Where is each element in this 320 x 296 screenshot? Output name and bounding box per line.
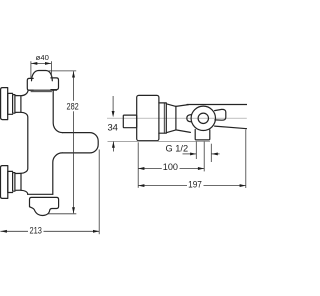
- 34 bottom arrow line: [112, 142, 114, 152]
- G12 dim right segment: [212, 153, 220, 155]
- svg-text:197: 197: [188, 179, 202, 190]
- 197 right ext: [245, 130, 247, 189]
- wall union box: [123, 115, 136, 128]
- handle1 collar: [8, 93, 13, 114]
- arrowhead 34 bottom: [112, 142, 115, 148]
- ext top 282: [48, 70, 77, 72]
- axis centerline: [107, 117, 247, 119]
- body top seam: [31, 91, 52, 93]
- svg-text:G 1/2: G 1/2: [166, 143, 189, 154]
- dim line 213: [0, 230, 99, 232]
- dim line 282: [73, 71, 75, 213]
- handle1 neck: [13, 95, 15, 114]
- outlet center line: [203, 142, 205, 172]
- 197 dim line: [138, 185, 246, 187]
- svg-text:100: 100: [163, 162, 178, 173]
- right tab: [215, 109, 226, 120]
- svg-text:282: 282: [67, 101, 79, 112]
- svg-text:ø40: ø40: [36, 53, 49, 62]
- big circle: [191, 106, 215, 130]
- top dome cap: [32, 71, 53, 81]
- left notch ear: [187, 115, 192, 122]
- handle2 collar: [8, 171, 13, 192]
- body bottom junction under handle2: [21, 190, 28, 194]
- arrowhead 34 top: [112, 111, 115, 117]
- taper bottom: [166, 130, 176, 133]
- arrowheads o40: [31, 62, 37, 65]
- handle2 knob: [1, 166, 8, 199]
- spout top edge: [187, 104, 247, 106]
- spout top edge and tip: [62, 133, 98, 153]
- arrowheads 213: [1, 230, 7, 233]
- 100 dim line: [138, 168, 204, 170]
- arrowheads G12: [190, 152, 196, 155]
- taper top: [166, 104, 176, 107]
- taper end edge: [175, 106, 177, 129]
- body right edge upper: [53, 90, 62, 132]
- handle2 stem: [15, 173, 21, 190]
- knob (handle end view): [137, 95, 159, 140]
- spout bottom edge: [215, 126, 247, 129]
- top flange right tab: [51, 78, 59, 90]
- arrowheads 197: [138, 184, 144, 187]
- top flange left block: [27, 78, 33, 90]
- mask behind 213 label: [28, 227, 44, 236]
- ext right 213: [98, 150, 100, 235]
- inner circle: [198, 113, 208, 123]
- handle1 stem joint line: [20, 96, 22, 112]
- outlet ext left: [195, 142, 197, 160]
- body left edge upper + handle1 junction: [21, 90, 28, 96]
- svg-text:34: 34: [107, 123, 118, 134]
- assembly bottom slope: [176, 130, 191, 133]
- arrowheads 100: [138, 167, 144, 170]
- 34 bottom tick / long reference line: [108, 140, 211, 142]
- handle1 knob: [1, 88, 8, 120]
- handle2 stem joint: [20, 173, 22, 190]
- svg-text:213: 213: [30, 226, 42, 237]
- G12 dim left segment: [183, 153, 197, 155]
- body left edge lower of handle1 to handle2: [21, 112, 28, 173]
- spout underside fillet to body right lower: [53, 153, 62, 194]
- handle2 neck: [13, 173, 15, 192]
- bottom cap: [30, 197, 59, 215]
- body bottom edge: [28, 193, 53, 195]
- left ext for 100/197: [137, 142, 139, 188]
- ext lines o40: [30, 61, 32, 78]
- arrowheads 282: [72, 71, 75, 77]
- dim line o40: [31, 62, 52, 64]
- collar inner line: [163, 103, 165, 133]
- mask behind 282 label: [65, 101, 81, 112]
- collar: [159, 103, 166, 133]
- 34 top arrow line: [112, 96, 114, 114]
- assembly top slope: [176, 105, 189, 107]
- ext bottom 282: [47, 213, 76, 215]
- outlet block: [195, 130, 210, 140]
- handle1 stem: [15, 96, 21, 113]
- outlet ext right: [210, 144, 212, 162]
- top flange bottom line: [29, 89, 56, 91]
